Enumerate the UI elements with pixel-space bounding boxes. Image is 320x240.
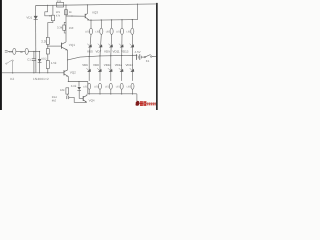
wire R3 to R4 (47, 44, 49, 48)
watermark small red text (147, 103, 148, 106)
LED lamp L2 (100, 28, 103, 34)
watermark red char 1 (140, 101, 143, 106)
node bottom bus col4 (121, 93, 122, 94)
wire VQ3 base feed (66, 15, 85, 17)
wire AC input (8, 50, 13, 52)
capacitor C1 branch (33, 51, 35, 58)
wire main lower bus (2, 72, 64, 74)
svg-text:VD8: VD8 (93, 63, 99, 67)
node VD2 top junction (39, 51, 40, 52)
wire rail to VQ1 collector (65, 5, 67, 42)
LED lamp L1 (89, 28, 92, 34)
diode VD14 (130, 69, 134, 72)
svg-text:LED: LED (95, 31, 100, 34)
node bottom bus col1 (89, 93, 90, 94)
svg-text:VD1: VD1 (26, 16, 32, 20)
node col2 bus1 (99, 55, 100, 56)
node VQ1 emitter bus1 (67, 59, 68, 60)
svg-text:C1: C1 (27, 57, 31, 61)
wire battery to switch (141, 56, 144, 58)
wire top supply rail (36, 4, 157, 6)
wire top column 3 (111, 20, 113, 28)
svg-text:LED: LED (94, 86, 99, 89)
resistor R5 1.5k (46, 61, 49, 69)
wire rail to W1 (52, 5, 54, 15)
transistor VQ2 (63, 70, 65, 75)
svg-text:LED: LED (116, 31, 121, 34)
wire emitter horizontal (68, 81, 88, 83)
transistor VQ3 (86, 5, 88, 14)
node R5 bus junction (47, 72, 48, 73)
wire top column 1 (90, 20, 92, 28)
node rail-W1 (47, 5, 48, 6)
svg-text:LED: LED (85, 31, 90, 34)
svg-text:VQ4: VQ4 (89, 98, 95, 102)
switch K2 (6, 63, 7, 64)
wire middle bus to battery (68, 55, 138, 60)
watermark red logo blob (136, 101, 140, 106)
LED lamp L4 (120, 28, 123, 34)
svg-text:LED: LED (83, 86, 88, 89)
svg-text:47k: 47k (56, 14, 61, 17)
wire R7 to C2 (66, 94, 68, 96)
svg-text:3.0k: 3.0k (71, 84, 77, 88)
node diode branch (78, 81, 79, 82)
diode VD7 (99, 44, 103, 47)
svg-text:VQ2: VQ2 (70, 71, 76, 75)
svg-text:VD10: VD10 (104, 63, 112, 67)
wire LED rail riser (137, 4, 139, 19)
svg-text:K1: K1 (146, 59, 150, 63)
svg-text:VD7: VD7 (96, 50, 102, 54)
node VQ1 base junction (47, 46, 48, 47)
diode VD13 (130, 44, 134, 47)
resistor R7 16k (66, 88, 69, 94)
LED lamp lower 2 (99, 83, 102, 89)
resistor R13 on top rail (57, 2, 64, 7)
wire bottom column 1 (88, 57, 90, 81)
resistor R3 2.2k (46, 37, 49, 44)
node rail col1 (90, 19, 91, 20)
resistor RF2 capsule (25, 48, 28, 54)
diode VD10 (109, 69, 113, 72)
switch K1 (144, 56, 145, 57)
svg-text:R13: R13 (57, 0, 62, 3)
wire VD2 branch (39, 51, 41, 72)
node rail col3 (111, 19, 112, 20)
svg-text:3.3k: 3.3k (57, 26, 63, 30)
resistor RF1 capsule (13, 48, 16, 54)
diode VD9 (109, 44, 113, 47)
svg-text:VD12: VD12 (115, 63, 123, 67)
wire bottom bus to border (137, 102, 156, 104)
diode VD5 (88, 44, 92, 47)
svg-text:VD5: VD5 (87, 50, 93, 54)
wire bottom column 4 (121, 56, 123, 81)
svg-text:LED: LED (116, 86, 121, 89)
svg-text:VQ1: VQ1 (69, 43, 75, 47)
wire LED2 to diode (100, 34, 101, 56)
svg-text:K2: K2 (10, 77, 14, 81)
wire down to bottom bus (87, 82, 89, 94)
wire LED4 to diode (121, 34, 123, 55)
wire bottom column 5 (132, 55, 134, 81)
wire bottom column 2 (99, 56, 101, 81)
wire R5 to bus (47, 69, 49, 73)
LED lamp lower 3 (109, 83, 112, 89)
wire to bottom bus 1 (88, 89, 90, 94)
node bottom bus col5 (132, 93, 133, 94)
svg-text:1.5k: 1.5k (51, 61, 57, 65)
diode VD11 (120, 44, 124, 47)
diode VD8 (98, 69, 102, 72)
node rail col2 (101, 19, 102, 20)
svg-text:W1: W1 (56, 10, 61, 14)
wire between capsules (16, 50, 25, 52)
battery GB 4.5V (136, 54, 138, 60)
svg-text:VD11: VD11 (113, 50, 120, 54)
svg-text:VQ3: VQ3 (92, 11, 98, 15)
node C1 top junction (33, 51, 34, 52)
svg-text:VD13: VD13 (121, 50, 129, 54)
svg-text:VD6: VD6 (82, 63, 88, 67)
right frame border wire (156, 3, 158, 110)
wire LED3 to diode (110, 34, 113, 55)
node col3 bus1 (110, 55, 111, 56)
svg-text:LED: LED (127, 86, 132, 89)
node col5 bus1 (132, 55, 133, 56)
diode VD6 (87, 69, 91, 72)
node emitter wire junction (68, 81, 69, 82)
svg-text:VD14: VD14 (126, 63, 134, 67)
node rail-R2 (65, 5, 66, 6)
resistor R6 3.3k with stubs (64, 22, 66, 33)
wire VQ2 emitter down (67, 76, 69, 81)
transistor VQ1 (61, 43, 63, 49)
node rail-VQ3 (87, 4, 88, 5)
wire C2 to corner (69, 97, 87, 102)
LED lamp L5 (131, 28, 134, 34)
LED lamp lower 4 (120, 83, 123, 89)
node rail-LEDrail corner (137, 4, 138, 5)
svg-text:VD9: VD9 (104, 50, 110, 54)
diode VD4 (77, 87, 81, 90)
wire VD1 branch vertical (35, 6, 37, 73)
LED lamp L3 (110, 28, 113, 34)
svg-text:2.2k: 2.2k (41, 39, 47, 43)
wire capsule to VD lines (28, 50, 39, 52)
wire top column 2 (100, 20, 102, 28)
svg-text:LED: LED (105, 86, 110, 89)
node col1 bus1 (89, 56, 90, 57)
wire to bottom bus 3 (110, 89, 112, 94)
transistor VQ4 (82, 96, 84, 101)
capacitor C2 (66, 96, 68, 99)
wire bottom column 3 (110, 56, 112, 81)
wire W1 to lower chain (48, 21, 53, 38)
svg-text:VD2: VD2 (41, 57, 47, 60)
node col4 bus1 (121, 55, 122, 56)
terminal AC prongs (5, 50, 8, 52)
diode VD2 (38, 59, 42, 62)
svg-text:1N4001×2: 1N4001×2 (33, 77, 49, 81)
wire to bottom bus 4 (121, 89, 123, 94)
wire bottom bus (88, 93, 137, 95)
wire LED rail (89, 19, 137, 22)
wire top column 4 (121, 20, 123, 28)
node VQ3 base wire junction (71, 15, 72, 16)
diode VD1 (34, 16, 38, 19)
potentiometer W1 (51, 15, 54, 21)
node C1 bus junction (33, 72, 34, 73)
wire top column 5 (131, 20, 133, 28)
resistor R4 (46, 49, 49, 54)
diode VD12 (120, 69, 124, 72)
node K2 bus junction (12, 72, 13, 73)
wire LED5 to diode (131, 34, 133, 55)
LED lamp lower 1 (88, 83, 91, 89)
svg-text:16k: 16k (60, 88, 65, 92)
page scan black left edge (0, 0, 2, 110)
watermark red char 2 (143, 101, 146, 106)
svg-text:4k5: 4k5 (52, 99, 57, 102)
wire R4 to R5 (47, 54, 49, 61)
node bottom bus col2 (99, 93, 100, 94)
wire diode branch (78, 82, 80, 87)
svg-text:150: 150 (69, 26, 74, 30)
wire bottom bus corner down (136, 94, 138, 104)
wire W1 wiper loop (45, 5, 51, 15)
wire VQ2 collector up to bus1 (67, 60, 69, 70)
wire LED1 to diode (89, 34, 91, 56)
node rail col5 (132, 19, 133, 20)
wire to bottom bus 5 (132, 89, 134, 94)
wire to bottom bus 2 (99, 89, 101, 94)
node bottom bus col3 (110, 93, 111, 94)
node VD-line / AC wire junction (35, 51, 36, 52)
svg-text:4.5V: 4.5V (135, 50, 141, 54)
svg-text:LED: LED (106, 31, 111, 34)
LED lamp lower 5 (131, 83, 134, 89)
svg-text:LED: LED (126, 31, 131, 34)
wire VD4 line to VQ4 base (79, 90, 83, 98)
node VD2 bus junction (39, 72, 40, 73)
wire VQ1 emitter down (67, 50, 69, 60)
resistor R2 1k (65, 10, 68, 15)
node rail col4 (121, 19, 122, 20)
